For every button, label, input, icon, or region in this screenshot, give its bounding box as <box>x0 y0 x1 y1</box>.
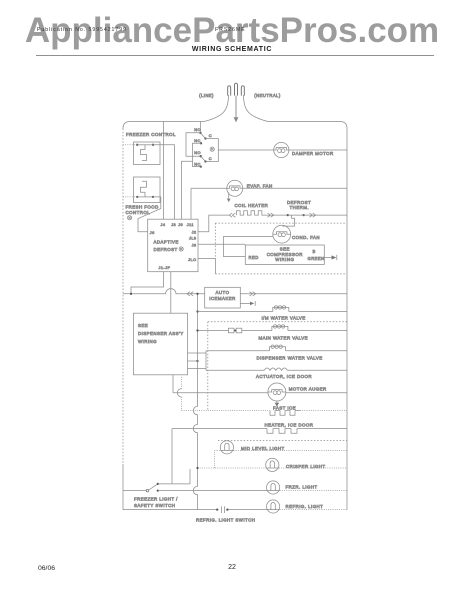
wire defrost therm to bus <box>304 214 347 216</box>
svg-text:COND. FAN: COND. FAN <box>292 235 320 240</box>
safety switch open terminal <box>146 489 149 492</box>
svg-text:NC: NC <box>194 138 201 143</box>
dispenser box pin wires <box>188 352 206 354</box>
connector plug main water valve <box>228 328 234 333</box>
wire dispenser water valve <box>206 350 270 352</box>
left border solid lower <box>122 464 124 510</box>
evap fan ground arrow <box>228 193 230 200</box>
wire I/M water valve <box>198 311 273 313</box>
svg-text:FRZR. LIGHT: FRZR. LIGHT <box>286 484 318 489</box>
wire cond fan to compressor RED <box>223 236 245 256</box>
svg-text:C: C <box>209 156 212 161</box>
switch S1 NO terminal <box>199 132 201 134</box>
dashed lead to fresh food control <box>123 196 137 198</box>
svg-text:RED: RED <box>249 255 259 260</box>
svg-text:J6: J6 <box>192 244 197 248</box>
svg-text:NO: NO <box>194 150 201 155</box>
wire NC link to J6 feed <box>182 161 193 219</box>
switch S2 blade <box>201 156 206 161</box>
compressor wiring box <box>245 245 324 264</box>
riser heater row to safety switch <box>171 429 173 484</box>
mid level light lamp <box>220 441 233 454</box>
switch S2 NO terminal <box>200 155 202 157</box>
wire bus to switch NO1 <box>200 122 202 133</box>
svg-text:ACTUATOR, ICE DOOR: ACTUATOR, ICE DOOR <box>256 374 312 379</box>
wire relay to damper motor <box>218 149 273 151</box>
svg-text:CONTROL: CONTROL <box>126 210 151 215</box>
svg-text:B: B <box>313 249 316 254</box>
ground prong lead <box>235 96 237 118</box>
svg-text:J6: J6 <box>150 231 155 235</box>
fast ice resistor <box>270 411 300 416</box>
solenoid dispenser water valve <box>270 347 286 351</box>
icemaker disconnect <box>187 292 193 296</box>
svg-text:NC: NC <box>194 162 201 167</box>
defrost thermostat junction <box>287 214 289 216</box>
coil heater resistor <box>237 211 266 215</box>
wire bus to J4 <box>163 122 165 220</box>
footer date <box>38 565 55 572</box>
svg-text:I/M WATER VALVE: I/M WATER VALVE <box>262 315 306 320</box>
wire JLO to compressor group <box>198 259 215 274</box>
svg-text:MID LEVEL LIGHT: MID LEVEL LIGHT <box>241 446 285 451</box>
svg-text:WIRING: WIRING <box>138 339 157 344</box>
wire C1-C2 common right edge <box>206 139 219 162</box>
svg-text:(LINE): (LINE) <box>199 93 214 98</box>
fresh food connector symbol <box>128 216 132 220</box>
svg-text:JL9: JL9 <box>189 236 196 240</box>
svg-text:DEFROST: DEFROST <box>154 247 178 252</box>
dashed lead to freezer control <box>123 144 137 146</box>
wire freezer control to J3 <box>153 145 175 219</box>
damper motor M1 <box>274 142 289 157</box>
crisper light lamp <box>266 458 279 471</box>
watermark <box>0 11 464 51</box>
wire to evap fan <box>191 187 227 189</box>
freezer control bellows symbol <box>141 145 147 161</box>
dashed compressor group border <box>215 222 347 224</box>
dotted feed crisper light <box>198 467 266 469</box>
wire icemaker to bus <box>240 293 347 295</box>
wire motor auger <box>173 392 268 394</box>
connector symbol in relay <box>210 147 214 151</box>
dashed compartment divider <box>218 439 347 441</box>
refrig light switch <box>216 508 218 510</box>
svg-text:THERM.: THERM. <box>290 205 310 210</box>
solenoid I/M water valve <box>273 307 289 311</box>
switch S2 NC terminal <box>200 165 202 167</box>
svg-text:AUTO: AUTO <box>216 290 230 295</box>
adaptive defrost box <box>148 219 198 272</box>
dashed icemaker group border <box>208 321 347 323</box>
wire to frzr light <box>158 490 267 492</box>
icemaker probe stub arrow <box>240 302 251 304</box>
svg-text:J6: J6 <box>178 223 183 227</box>
dotted feed mid level light <box>213 450 215 468</box>
ground arrow <box>234 117 239 122</box>
switch S2 C terminal <box>204 160 206 162</box>
svg-text:CRISPER LIGHT: CRISPER LIGHT <box>286 464 326 469</box>
svg-text:(NEUTRAL): (NEUTRAL) <box>254 93 281 98</box>
compressor ground arrow <box>324 257 332 259</box>
stub riser to crisper feed <box>189 469 191 484</box>
svg-text:J11: J11 <box>187 223 194 227</box>
power cord plug prongs <box>228 86 231 96</box>
svg-text:DISPENSER WATER VALVE: DISPENSER WATER VALVE <box>257 356 323 361</box>
svg-text:J1-JP: J1-JP <box>159 266 171 270</box>
riser wire from icemaker row down to bottom <box>193 294 197 510</box>
wire freezer light row <box>123 490 146 492</box>
safety switch branch to heater riser <box>158 483 190 485</box>
evap fan motor M2 <box>227 180 243 196</box>
svg-text:J4: J4 <box>161 223 166 227</box>
left border dashed <box>122 129 124 465</box>
wire neutral-side curve to right bus <box>243 95 347 129</box>
cond fan motor M3 <box>273 225 291 243</box>
switch S1 C terminal <box>204 137 206 139</box>
riser dispenser valve to actuator <box>205 351 207 371</box>
wire J6 to compressor box <box>198 243 245 245</box>
svg-text:DAMPER MOTOR: DAMPER MOTOR <box>292 151 334 156</box>
motor auger M4 <box>268 383 286 401</box>
model number <box>215 27 246 33</box>
svg-text:EVAP. FAN: EVAP. FAN <box>247 184 273 189</box>
freezer control contact line <box>137 144 153 146</box>
wire damper motor to bus <box>289 149 347 151</box>
svg-text:SEE: SEE <box>138 323 148 328</box>
dashed fast ice branch <box>181 377 183 411</box>
wire J2 to coil heater riser <box>198 215 229 232</box>
auto icemaker box <box>205 287 241 308</box>
wire evap fan to bus <box>243 187 347 189</box>
coil heater disconnect <box>229 213 235 217</box>
refrig light lamp <box>267 500 280 513</box>
wire dispenser box bottom to auger row <box>172 375 174 393</box>
svg-text:FRESH FOOD: FRESH FOOD <box>126 205 159 210</box>
wire defrost therm drop to cond fan <box>283 215 295 226</box>
wire actuator ice door <box>206 369 264 371</box>
svg-text:COIL HEATER: COIL HEATER <box>235 203 269 208</box>
svg-text:MOTOR AUGER: MOTOR AUGER <box>289 386 327 391</box>
svg-text:WIRING: WIRING <box>275 257 294 262</box>
svg-text:SAFETY SWITCH: SAFETY SWITCH <box>134 503 175 508</box>
svg-text:FREEZER LIGHT /: FREEZER LIGHT / <box>134 497 178 502</box>
wire adaptive defrost to dispenser box <box>170 272 172 314</box>
wire main water valve <box>198 330 229 332</box>
svg-text:DISPENSER ASS'Y: DISPENSER ASS'Y <box>138 331 184 336</box>
dispenser assy wiring box <box>133 313 187 375</box>
svg-text:MAIN WATER VALVE: MAIN WATER VALVE <box>259 335 308 340</box>
svg-text:HEATER, ICE DOOR: HEATER, ICE DOOR <box>265 423 314 428</box>
switch S1 blade <box>201 133 206 139</box>
adaptive defrost connector symbol <box>179 247 183 251</box>
motor auger ground arrow <box>276 401 278 403</box>
wire fresh food control to adaptive defrost J6 <box>138 197 161 232</box>
svg-text:JLO: JLO <box>188 258 196 262</box>
title rule <box>36 55 434 56</box>
fresh food bellows symbol <box>141 181 147 197</box>
safety switch blade <box>149 484 158 490</box>
svg-text:ADAPTIVE: ADAPTIVE <box>154 240 179 245</box>
wire coil heater to defrost therm <box>266 214 288 216</box>
wire cond fan left lead <box>223 235 273 237</box>
wire NO1 to NO2 link <box>186 133 201 157</box>
solenoid main water valve <box>272 326 288 330</box>
fresh food control box <box>134 177 161 203</box>
freezer control box <box>134 142 161 165</box>
heater ice door resistor <box>267 429 303 434</box>
wire line-side curve to left bus <box>123 95 229 129</box>
svg-text:FREEZER CONTROL: FREEZER CONTROL <box>126 132 176 137</box>
footer page number <box>0 564 464 571</box>
svg-text:REFRIG. LIGHT SWITCH: REFRIG. LIGHT SWITCH <box>196 517 255 522</box>
icemaker feed wire <box>123 289 205 294</box>
svg-text:C: C <box>209 133 212 138</box>
svg-text:REFRIG. LIGHT: REFRIG. LIGHT <box>286 504 324 509</box>
wire J1-JP drop <box>131 272 164 294</box>
switch S1 NC terminal <box>200 142 202 144</box>
svg-text:FAST ICE: FAST ICE <box>273 406 296 411</box>
wire NC1 to NC2 link <box>193 143 202 166</box>
svg-text:J2: J2 <box>192 231 197 235</box>
freezer control terminals <box>136 144 138 146</box>
bottom return wire <box>123 509 216 511</box>
svg-text:GREEN: GREEN <box>308 256 325 261</box>
page title <box>0 46 464 53</box>
svg-text:J3: J3 <box>171 223 176 227</box>
right bus wire <box>346 129 348 510</box>
frzr light lamp <box>267 481 280 494</box>
svg-text:NO: NO <box>194 127 201 132</box>
svg-text:ICEMAKER: ICEMAKER <box>209 296 236 301</box>
actuator coil wavy <box>264 368 287 370</box>
wire heater ice door <box>172 428 267 430</box>
fresh food terminals <box>136 196 138 198</box>
publication number <box>37 27 127 33</box>
wire J11 riser <box>190 188 192 219</box>
